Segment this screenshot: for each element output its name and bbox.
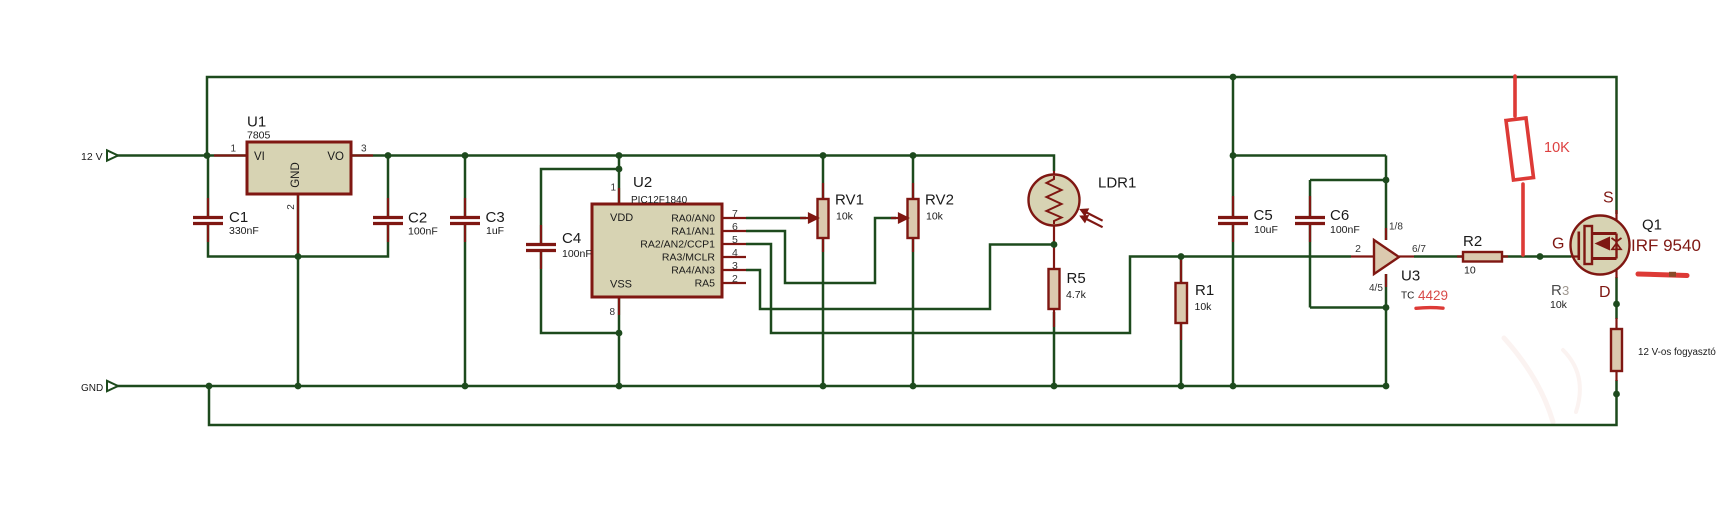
svg-text:U1: U1 — [247, 114, 266, 131]
svg-text:6/7: 6/7 — [1412, 244, 1426, 255]
svg-text:C5: C5 — [1254, 207, 1273, 224]
svg-text:RA5: RA5 — [695, 278, 716, 290]
svg-text:S: S — [1603, 190, 1614, 207]
svg-text:2: 2 — [286, 204, 297, 210]
svg-text:100nF: 100nF — [408, 226, 438, 238]
svg-text:100nF: 100nF — [1330, 224, 1360, 236]
svg-text:R2: R2 — [1463, 233, 1482, 250]
svg-text:10K: 10K — [1544, 140, 1570, 156]
svg-text:RA3/MCLR: RA3/MCLR — [662, 252, 716, 264]
svg-text:6: 6 — [732, 221, 738, 233]
svg-text:U2: U2 — [633, 174, 652, 191]
svg-text:10uF: 10uF — [1254, 224, 1278, 236]
svg-text:7: 7 — [732, 208, 738, 220]
svg-text:4: 4 — [732, 247, 738, 259]
svg-text:C3: C3 — [486, 209, 505, 226]
svg-text:RA2/AN2/CCP1: RA2/AN2/CCP1 — [640, 239, 715, 251]
svg-text:RA4/AN3: RA4/AN3 — [671, 265, 715, 277]
svg-text:U3: U3 — [1401, 268, 1420, 285]
svg-text:G: G — [1552, 236, 1564, 253]
svg-text:Q1: Q1 — [1642, 217, 1662, 234]
svg-text:R: R — [1551, 282, 1562, 299]
svg-text:VDD: VDD — [610, 212, 633, 224]
svg-text:10k: 10k — [836, 211, 854, 223]
svg-text:C4: C4 — [562, 230, 581, 247]
svg-text:3: 3 — [1562, 283, 1569, 298]
svg-text:8: 8 — [609, 307, 615, 318]
svg-text:RV2: RV2 — [925, 192, 954, 209]
svg-text:330nF: 330nF — [229, 225, 259, 237]
svg-text:100nF: 100nF — [562, 248, 592, 260]
svg-text:2: 2 — [732, 273, 738, 285]
svg-text:D: D — [1599, 284, 1611, 301]
svg-text:1: 1 — [610, 183, 616, 194]
svg-text:GND: GND — [81, 383, 103, 394]
svg-text:5: 5 — [732, 234, 738, 246]
svg-text:LDR1: LDR1 — [1098, 175, 1136, 192]
svg-text:RA1/AN1: RA1/AN1 — [671, 226, 715, 238]
svg-text:VI: VI — [254, 151, 265, 163]
svg-text:1uF: 1uF — [486, 225, 504, 237]
svg-text:VO: VO — [327, 151, 344, 163]
svg-text:3: 3 — [361, 144, 367, 155]
svg-text:RA0/AN0: RA0/AN0 — [671, 213, 715, 225]
svg-text:C2: C2 — [408, 210, 427, 227]
svg-text:VSS: VSS — [610, 279, 632, 291]
svg-text:2: 2 — [1355, 243, 1361, 255]
svg-text:1: 1 — [230, 144, 236, 155]
svg-text:7805: 7805 — [247, 130, 271, 142]
svg-text:12 V-os fogyasztó: 12 V-os fogyasztó — [1638, 347, 1716, 358]
svg-text:3: 3 — [732, 260, 738, 272]
svg-text:10: 10 — [1464, 265, 1476, 277]
svg-text:R5: R5 — [1067, 270, 1086, 287]
svg-text:10k: 10k — [1550, 299, 1568, 311]
svg-text:RV1: RV1 — [835, 192, 864, 209]
svg-text:GND: GND — [290, 162, 302, 188]
svg-text:TC: TC — [1401, 291, 1414, 302]
svg-text:12 V: 12 V — [81, 151, 103, 163]
svg-text:4.7k: 4.7k — [1066, 289, 1087, 301]
svg-text:PIC12F1840: PIC12F1840 — [631, 195, 688, 206]
svg-text:10k: 10k — [926, 211, 944, 223]
svg-text:4429: 4429 — [1418, 288, 1448, 303]
svg-text:IRF 9540: IRF 9540 — [1631, 236, 1701, 255]
svg-text:1/8: 1/8 — [1389, 222, 1403, 233]
svg-text:R1: R1 — [1195, 282, 1214, 299]
svg-text:C1: C1 — [229, 209, 248, 226]
svg-text:10k: 10k — [1195, 301, 1213, 313]
svg-text:C6: C6 — [1330, 207, 1349, 224]
svg-text:4/5: 4/5 — [1369, 283, 1383, 294]
